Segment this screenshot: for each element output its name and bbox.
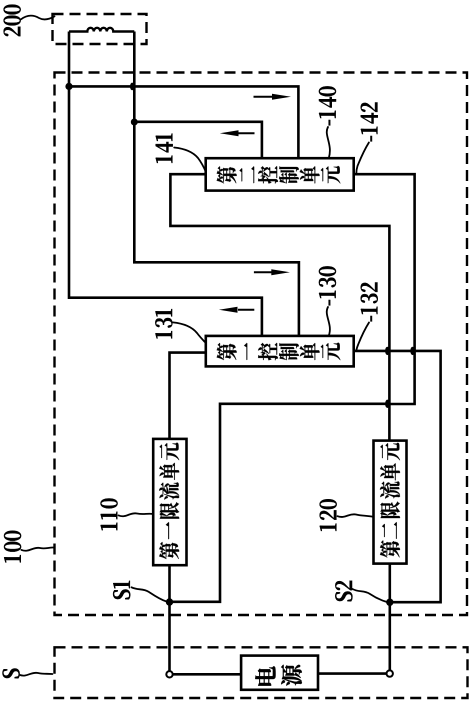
wire feedback from node S1 up to junction: [170, 404, 390, 602]
label 100: [4, 555, 21, 562]
node A junction dot: [65, 83, 72, 90]
current arrow right (middle): [254, 271, 272, 273]
label 142: [370, 136, 371, 141]
wire from first current limiter bottom through node S1 to supply terminal: [168, 565, 171, 671]
inductor L (load 200): [69, 28, 134, 32]
label 200: [4, 27, 21, 36]
load block 200 dashed box: [53, 14, 147, 44]
wire from node B to second control unit left top pin: [134, 122, 262, 158]
wire from second current limiter bottom to supply terminal: [388, 564, 391, 671]
junction blob wire132 x wire141: [385, 347, 390, 355]
leader squiggle for label 140: [327, 127, 330, 158]
node S2 junction dot: [386, 599, 393, 606]
wire 141 from second control unit left pin to second current limiter top: [170, 174, 389, 440]
label 131: [155, 331, 172, 338]
device block 100 dashed box: [55, 73, 468, 616]
supply terminal right (open circle): [387, 670, 393, 676]
current arrow left (top): [238, 132, 255, 134]
wire power box to supply right terminal: [318, 672, 386, 675]
wire 131 from first control unit left pin to first current limiter top: [170, 353, 206, 439]
leader squiggle for label S1: [132, 587, 167, 601]
junction blob wire132 x wire142: [410, 347, 415, 355]
label 130: [329, 300, 330, 305]
label 110: [101, 523, 118, 530]
power block S dashed box: [55, 647, 468, 698]
leader squiggle for label 110: [119, 513, 154, 516]
second current limiting unit 120 box: [374, 441, 407, 564]
current arrow left (middle): [238, 309, 254, 311]
label S: [3, 668, 20, 678]
leader squiggle for label 100: [21, 547, 54, 550]
second control unit U140 box: [206, 158, 354, 190]
label S1: [113, 589, 130, 599]
label 120: [320, 524, 337, 531]
leader squiggle for label 130: [327, 307, 330, 336]
leader squiggle for label 131: [173, 322, 206, 343]
label 132: [370, 316, 371, 321]
leader squiggle for label 200: [21, 16, 55, 20]
wire from node A to second control unit right top pin: [69, 86, 298, 158]
label S2: [335, 591, 352, 601]
label 141: [156, 156, 173, 163]
node B junction dot: [131, 119, 138, 126]
first current limiting unit 110 box: [153, 439, 186, 565]
leader squiggle for label S2: [353, 589, 388, 602]
leader squiggle for label 120: [338, 514, 374, 517]
leader squiggle for label 141: [174, 148, 205, 172]
junction blob feedback x wire141: [385, 400, 390, 408]
wire right rail from inductor to first control unit right top pin: [134, 32, 299, 336]
power source box: [241, 656, 318, 690]
first control unit U130 box: [206, 336, 354, 367]
current arrow right (top): [254, 96, 274, 98]
leader squiggle for label 142: [356, 143, 369, 175]
junction blob at right rail crossing: [130, 83, 134, 91]
wire supply left terminal to power box: [173, 673, 241, 676]
wire left rail from inductor to first control unit left top pin: [69, 32, 262, 336]
leader squiggle for label 132: [357, 323, 370, 351]
label 140: [329, 120, 330, 125]
supply terminal left (open circle): [166, 671, 172, 677]
wire 132 from first control unit right pin down through node S2: [354, 351, 441, 602]
leader squiggle for label S: [20, 673, 52, 676]
node S1 junction dot: [166, 598, 173, 605]
wire 142 from second control unit right pin down to junction: [354, 174, 415, 404]
